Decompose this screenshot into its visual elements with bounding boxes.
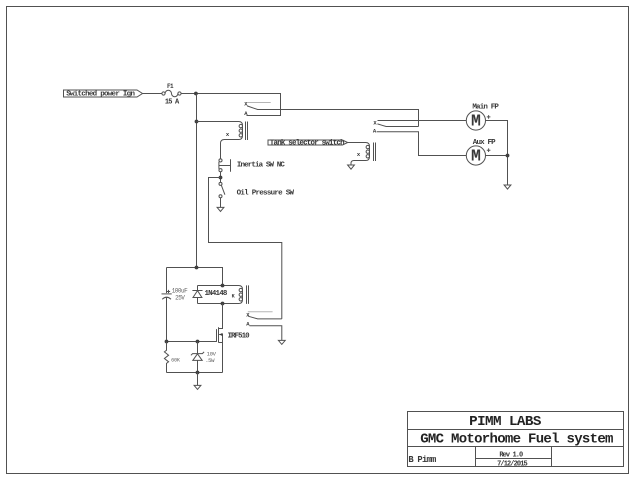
svg-text:.5W: .5W [205,357,215,364]
svg-text:Tank selector switch: Tank selector switch [270,140,345,148]
svg-text:100uF: 100uF [172,287,188,294]
svg-text:15 A: 15 A [165,98,180,106]
svg-text:F1: F1 [167,83,174,90]
svg-text:60K: 60K [171,357,181,363]
svg-text:Rev 1.0: Rev 1.0 [499,451,523,459]
svg-text:PIMM LABS: PIMM LABS [469,414,542,430]
svg-text:Oil Pressure SW: Oil Pressure SW [237,190,295,198]
svg-text:Inertia SW NC: Inertia SW NC [237,162,285,170]
svg-text:M: M [471,112,481,131]
svg-text:Switched power Ign: Switched power Ign [66,91,135,99]
svg-text:IRF510: IRF510 [228,332,251,340]
svg-text:Aux FP: Aux FP [473,139,496,147]
svg-text:M: M [471,147,481,166]
svg-text:GMC Motorhome Fuel system: GMC Motorhome Fuel system [420,431,613,447]
svg-text:Main FP: Main FP [472,104,499,112]
svg-text:25V: 25V [175,295,185,302]
svg-text:B Pimm: B Pimm [408,455,436,465]
svg-text:1N4148: 1N4148 [205,290,228,298]
svg-text:7/12/2015: 7/12/2015 [497,461,527,469]
